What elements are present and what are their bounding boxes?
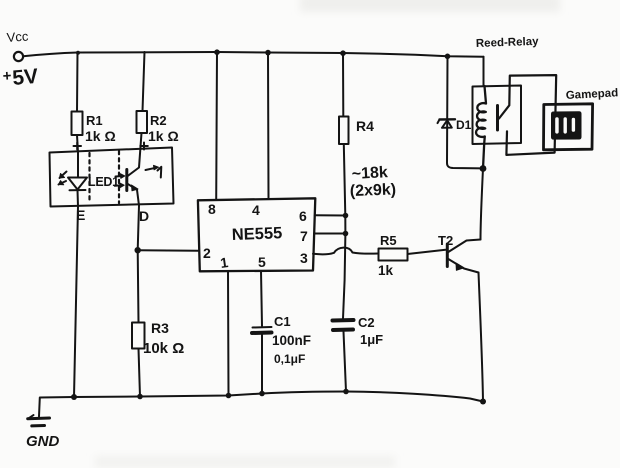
connector gamepad box <box>544 104 593 150</box>
connector gamepad icon <box>551 111 582 139</box>
wire T2 emitter down <box>479 273 484 402</box>
svg-text:1k Ω: 1k Ω <box>148 128 179 144</box>
svg-text:1k Ω: 1k Ω <box>85 128 116 144</box>
wire R1 top <box>76 53 79 112</box>
svg-text:E: E <box>76 207 85 223</box>
wire pin7 <box>314 233 346 235</box>
node pin7/R4 <box>343 231 349 237</box>
resistor R4 <box>339 117 349 145</box>
node top R1 <box>76 51 80 55</box>
svg-text:R3: R3 <box>151 320 169 336</box>
wire pin1 <box>227 271 230 396</box>
svg-text:6: 6 <box>299 208 307 224</box>
svg-text:R4: R4 <box>356 118 374 134</box>
node top R4 <box>340 50 346 56</box>
svg-text:5: 5 <box>258 254 266 270</box>
IC U1 NE555 box <box>198 198 315 271</box>
transistor T1 (photo) <box>125 170 128 191</box>
resistor R5 <box>379 249 408 261</box>
node gnd C1 <box>259 391 265 397</box>
wire R4 bottom <box>343 144 345 319</box>
label T1 arrow <box>146 168 156 170</box>
wire pin8 <box>215 52 218 199</box>
svg-text:7: 7 <box>300 228 308 244</box>
T1 light arrows <box>116 175 123 178</box>
diode D1 (zener) <box>440 118 456 121</box>
capacitor C1 <box>253 326 272 329</box>
optocoupler box U2 <box>50 148 174 207</box>
svg-text:C1: C1 <box>274 314 291 329</box>
node gnd T2 <box>480 399 486 405</box>
svg-text:3: 3 <box>300 250 308 266</box>
svg-text:R1: R1 <box>86 113 103 128</box>
svg-text:2: 2 <box>203 245 211 261</box>
wire R2 top <box>143 52 145 111</box>
svg-text:LED1: LED1 <box>88 175 119 189</box>
wire R2 bottom <box>140 133 142 161</box>
transistor T2 <box>446 244 449 267</box>
node top pin8 <box>214 49 220 55</box>
wire relay feed down <box>483 57 485 86</box>
svg-text:(2x9k): (2x9k) <box>350 181 397 200</box>
ground <box>39 397 74 417</box>
svg-text:GND: GND <box>26 433 60 450</box>
svg-text:4: 4 <box>252 202 260 218</box>
relay coil <box>476 86 486 169</box>
node gnd E <box>71 394 77 400</box>
wire R3 bottom <box>139 349 141 397</box>
svg-text:T2: T2 <box>438 233 453 248</box>
wire E down <box>74 207 78 398</box>
node pin2/D <box>135 247 141 253</box>
capacitor C2 <box>333 318 354 323</box>
svg-text:Vcc: Vcc <box>6 28 29 45</box>
relay switch contact <box>496 106 499 131</box>
wire pin3 with hop <box>313 248 379 255</box>
svg-text:1μF: 1μF <box>360 332 383 347</box>
node gnd pin1 <box>226 393 232 399</box>
svg-text:R5: R5 <box>380 233 397 248</box>
node pin6/R4 <box>343 213 349 219</box>
node Vcc terminal <box>14 52 23 61</box>
wire R5 to T2 <box>408 250 446 254</box>
wire D down to node <box>138 206 139 251</box>
label plus left <box>74 143 82 150</box>
svg-text:~18k: ~18k <box>351 164 388 183</box>
wire R4 top <box>342 53 344 117</box>
smudge top <box>300 0 560 12</box>
resistor R3 <box>132 323 145 349</box>
node top pin4 <box>265 50 271 56</box>
svg-text:100nF: 100nF <box>272 333 311 348</box>
svg-text:5V: 5V <box>11 65 39 90</box>
wire C2 bottom <box>344 332 347 392</box>
svg-text:1k: 1k <box>378 263 394 278</box>
svg-text:R2: R2 <box>150 113 167 128</box>
svg-text:D: D <box>139 208 149 224</box>
wire R3 top <box>137 250 140 322</box>
resistor R1 <box>72 112 83 136</box>
svg-text:10k Ω: 10k Ω <box>143 340 184 357</box>
wire C1 bottom <box>261 334 263 394</box>
relay K1 coil box <box>473 86 522 145</box>
wire top rail <box>23 52 483 57</box>
wire pin5 <box>261 271 262 326</box>
wire pin4 <box>267 53 270 198</box>
wire D1 branch <box>447 56 483 168</box>
wire R1 bottom <box>77 135 78 153</box>
wire relay node to T2 collector <box>481 169 484 240</box>
node gnd C2 <box>343 389 349 395</box>
LED LED1 <box>77 153 79 178</box>
node gnd R3 <box>137 394 143 400</box>
svg-text:NE555: NE555 <box>232 224 283 244</box>
svg-text:8: 8 <box>208 201 216 217</box>
wire pin6 <box>315 214 346 216</box>
svg-text:0,1μF: 0,1μF <box>274 352 305 366</box>
svg-text:Reed-Relay: Reed-Relay <box>476 36 540 50</box>
svg-text:D1: D1 <box>456 118 472 132</box>
node relay/D1/T2 <box>480 165 487 172</box>
node top D1 <box>445 54 451 60</box>
smudge bottom <box>95 456 395 468</box>
resistor R2 <box>137 111 148 133</box>
dashed divider left <box>88 153 90 203</box>
label plus right <box>140 143 148 150</box>
LED1 emit arrows <box>60 172 67 179</box>
svg-text:C2: C2 <box>358 315 375 330</box>
ground wire bottom rail <box>74 392 483 402</box>
wire pin2 <box>138 249 198 252</box>
relay switch armature + box2 <box>499 75 556 155</box>
dashed divider right <box>118 151 120 203</box>
